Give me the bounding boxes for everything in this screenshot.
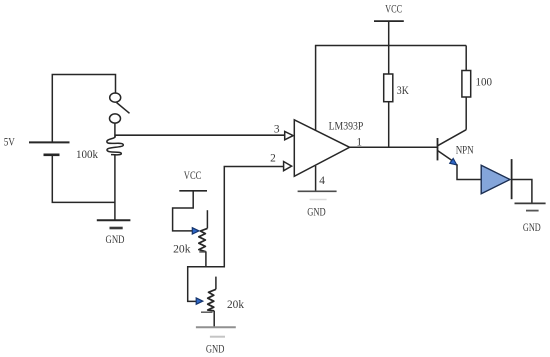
svg-text:GND: GND bbox=[206, 344, 225, 356]
svg-text:GND: GND bbox=[523, 222, 541, 234]
switch S1 bbox=[110, 93, 130, 123]
wire top rail bbox=[315, 45, 466, 47]
svg-text:VCC: VCC bbox=[385, 3, 402, 15]
wire output pin1 to base bbox=[350, 146, 438, 148]
wire pin 2 down to pots junction bbox=[188, 167, 284, 302]
pin 2 input buffer arrow bbox=[284, 162, 292, 171]
svg-text:5V: 5V bbox=[4, 137, 16, 149]
wire 100 bottom to collector bbox=[465, 97, 467, 130]
potentiometer RP2 20k bbox=[196, 277, 216, 327]
VCC pot symbol bbox=[179, 190, 207, 192]
wire R1 bottom to ground bbox=[114, 155, 116, 220]
pin 3 input buffer arrow bbox=[285, 131, 294, 139]
resistor R2 3K bbox=[384, 74, 393, 102]
pin 8 wire to top rail bbox=[315, 46, 317, 131]
svg-text:3K: 3K bbox=[397, 85, 410, 97]
op-amp U1 LM393P bbox=[294, 120, 349, 177]
resistor R1 100k bbox=[107, 136, 123, 155]
svg-text:100k: 100k bbox=[76, 149, 98, 161]
svg-text:2: 2 bbox=[270, 153, 276, 165]
ground left bbox=[97, 220, 131, 228]
svg-text:100: 100 bbox=[476, 76, 493, 88]
svg-text:GND: GND bbox=[106, 234, 125, 246]
svg-text:VCC: VCC bbox=[184, 170, 202, 182]
ground right bbox=[515, 203, 546, 210]
wire node A to pin 3 bbox=[115, 134, 285, 136]
svg-text:LM393P: LM393P bbox=[329, 121, 364, 133]
wire VCC to wiper of RP1 bbox=[173, 191, 194, 231]
ground middle bbox=[196, 327, 236, 337]
wire battery bottom to ground bbox=[52, 155, 115, 203]
pin 4 wire bbox=[315, 166, 317, 191]
wire emitter to diode bbox=[457, 164, 481, 179]
svg-text:20k: 20k bbox=[227, 299, 244, 311]
ground op-amp bbox=[298, 191, 337, 199]
wire R2 bottom to node B bbox=[388, 102, 390, 148]
diode D1 bbox=[481, 159, 511, 199]
transistor Q1 NPN bbox=[438, 130, 467, 165]
potentiometer RP1 20k bbox=[192, 210, 207, 267]
svg-text:4: 4 bbox=[319, 175, 325, 187]
battery BT1 5V bbox=[29, 142, 70, 154]
svg-text:GND: GND bbox=[307, 207, 326, 219]
wire 100 top bbox=[465, 46, 467, 71]
wire VCC to R2 top bbox=[388, 21, 390, 74]
wire diode cathode to ground bbox=[512, 180, 532, 204]
VCC top symbol bbox=[374, 20, 404, 22]
svg-text:1: 1 bbox=[356, 136, 362, 148]
wire switch to node A bbox=[114, 123, 116, 137]
svg-text:NPN: NPN bbox=[456, 145, 474, 157]
svg-text:3: 3 bbox=[274, 124, 280, 136]
svg-text:20k: 20k bbox=[173, 243, 191, 255]
resistor R3 100 bbox=[462, 71, 471, 98]
wire battery top to switch bbox=[52, 75, 115, 143]
